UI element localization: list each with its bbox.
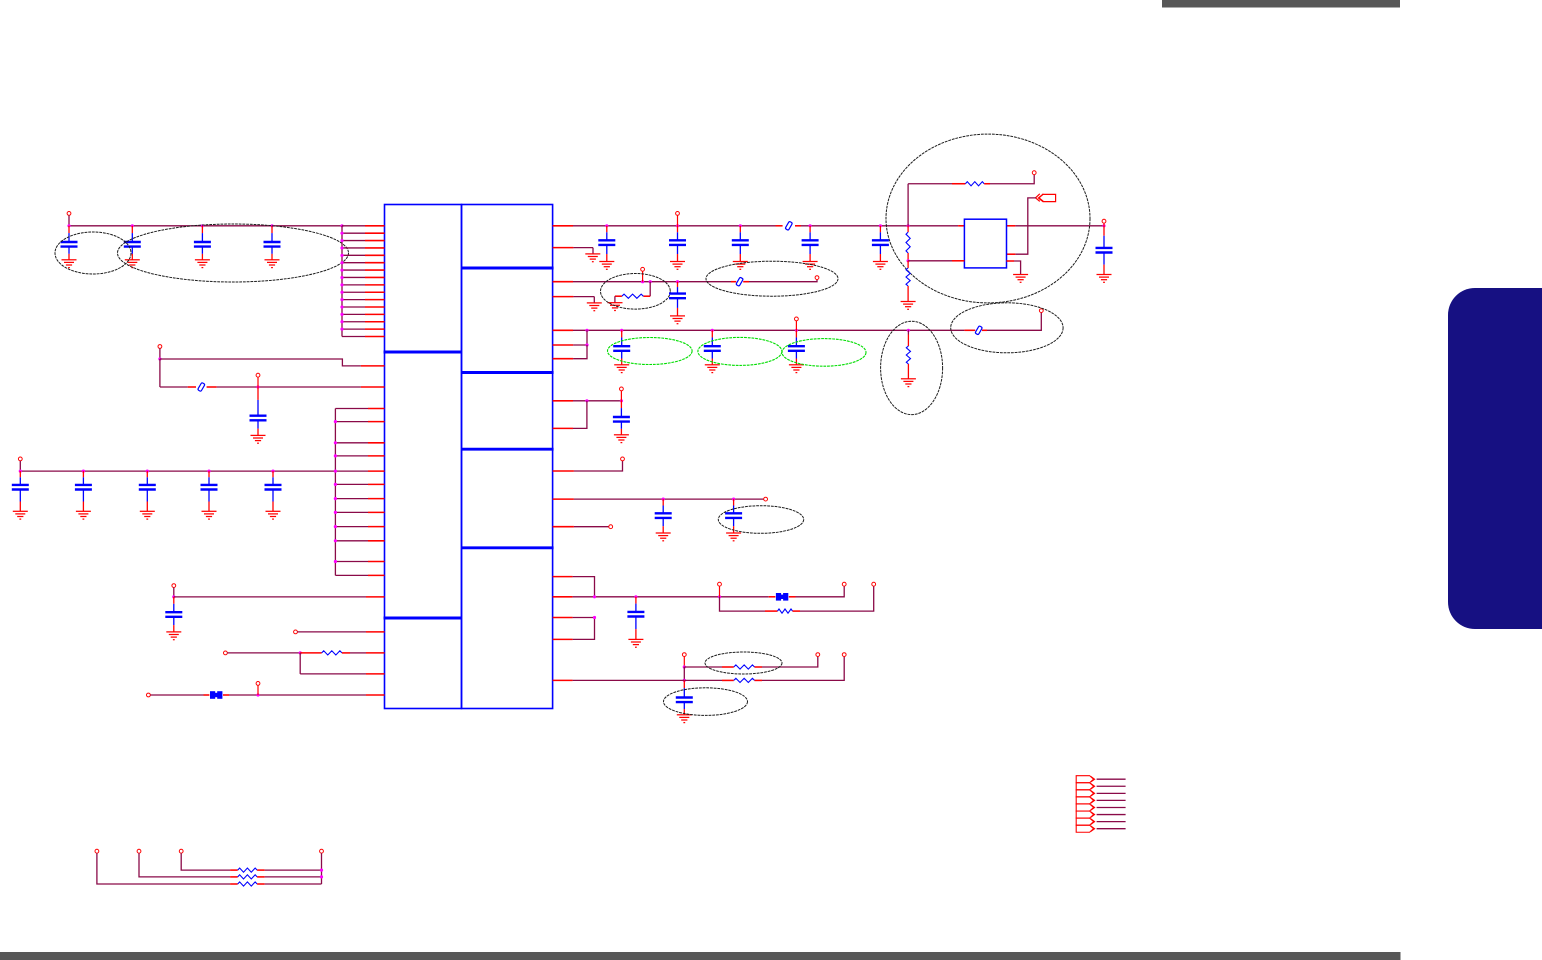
- fuse F2: [785, 221, 792, 230]
- pin P25: [816, 653, 820, 657]
- capacitor C2: [131, 226, 133, 233]
- wire bundle1 row 11: [342, 299, 365, 301]
- ground C14: [733, 262, 748, 270]
- power pin P5: [172, 584, 176, 588]
- wire net2 right: [207, 386, 217, 388]
- power pin P10: [676, 212, 680, 216]
- U1 left block divider 1: [384, 351, 462, 354]
- power pin P15: [620, 387, 624, 391]
- wire bundle1 row 13: [342, 313, 365, 315]
- net label arrow: [1036, 194, 1056, 202]
- resistor R4: [965, 182, 984, 186]
- wire net11 right: [755, 679, 763, 681]
- ground C26: [677, 715, 692, 723]
- wire row5: [553, 470, 574, 472]
- wire N4 down: [299, 653, 301, 674]
- U1 right block divider 2: [462, 371, 554, 374]
- pin P23: [872, 582, 876, 586]
- node rowA-B junctions: [320, 869, 323, 872]
- wire net11: [553, 679, 573, 681]
- power pin P18: [621, 457, 625, 461]
- wire N1 down: [159, 359, 161, 387]
- wire U2 gnd pin: [1007, 260, 1015, 262]
- wire net7 right: [223, 694, 229, 696]
- wire bundle2 row 2: [335, 421, 368, 423]
- resistor R9: [734, 678, 755, 682]
- wire bus3 segment b: [908, 329, 964, 331]
- U1 right block divider 1: [462, 267, 554, 270]
- fuse F1: [198, 382, 205, 391]
- wire bundle2 row 12: [335, 574, 368, 576]
- capacitor C19: [711, 330, 713, 337]
- wire J4: [1097, 799, 1126, 801]
- annotation ellipse A8: [705, 652, 782, 674]
- annotation ellipse A9: [664, 688, 748, 716]
- power pin P14: [795, 317, 799, 321]
- wire net9 right: [793, 610, 801, 612]
- wire bundle2 row 4: [335, 455, 368, 457]
- off-page connector J2: [1076, 783, 1094, 790]
- wire bundle2 row 6: [335, 483, 368, 485]
- node N1: [158, 357, 161, 360]
- pin P27: [95, 849, 99, 853]
- navy side panel: [1448, 288, 1542, 629]
- capacitor C6: [19, 471, 21, 477]
- resistor R11: [238, 875, 257, 879]
- wire bus3 bracket: [573, 330, 587, 345]
- wire gnd stub pin 2: [553, 247, 574, 249]
- annotation ellipse A2: [118, 224, 349, 282]
- pin P7 open: [224, 651, 228, 655]
- ground C6: [13, 511, 28, 519]
- wire J2: [1097, 785, 1126, 787]
- ground C8: [140, 511, 155, 519]
- capacitor C14: [739, 226, 741, 233]
- fuse F3: [736, 277, 743, 286]
- ground C3: [195, 260, 210, 268]
- node rail1 junctions: [67, 224, 70, 227]
- resistor R8: [734, 665, 755, 669]
- wire J6: [1097, 814, 1126, 816]
- wire gnd stub pin 4: [553, 296, 574, 298]
- power pin P9: [256, 682, 260, 686]
- ground C7: [76, 511, 91, 519]
- wire row4 bracket: [573, 401, 587, 429]
- ground C23: [656, 533, 671, 541]
- ground G2: [587, 303, 602, 311]
- power pin P24: [682, 653, 686, 657]
- capacitor C22: [1103, 226, 1105, 236]
- wire P30 stub: [321, 853, 323, 884]
- wire bundle1 row 5: [342, 254, 365, 256]
- power pin P3: [256, 373, 260, 377]
- wire net3: [174, 596, 366, 598]
- wire net6: [300, 673, 366, 675]
- wire bus1 segment c: [1007, 225, 1016, 227]
- ground C20: [789, 365, 804, 373]
- capacitor C25: [635, 597, 637, 604]
- wire bundle2 row 1: [335, 408, 368, 410]
- wire net7 left: [150, 694, 203, 696]
- pin P28: [137, 849, 141, 853]
- wire VCC rail 1: [69, 225, 342, 227]
- ground R2: [608, 303, 623, 311]
- pin P8 open: [147, 693, 151, 697]
- ferrite bead FB1: [210, 691, 222, 699]
- wire bundle1 row 6: [342, 262, 365, 264]
- capacitor C23: [662, 499, 664, 505]
- capacitor C8: [146, 471, 148, 477]
- wire bundle2 row 10: [335, 540, 368, 542]
- ground U2: [1013, 275, 1028, 283]
- wire bundle2 row 8: [335, 511, 368, 513]
- wire rowA right: [257, 869, 265, 871]
- ground R3: [901, 379, 916, 387]
- off-page connector J6: [1076, 811, 1094, 818]
- wire bundle1 row 9: [342, 284, 365, 286]
- capacitor C17: [677, 282, 679, 287]
- wire rowC right: [257, 883, 265, 885]
- off-page connector J8: [1076, 825, 1094, 832]
- wire bundle1 row 8: [342, 276, 365, 278]
- ground R6: [901, 302, 916, 310]
- resistor R5: [907, 226, 909, 232]
- fuse F4: [975, 326, 982, 335]
- IC U1 left block: [385, 205, 462, 709]
- wire bundle2 row 11: [335, 561, 368, 563]
- wire bus1 segment b: [795, 225, 801, 227]
- capacitor C7: [82, 471, 84, 477]
- wire bundle2 row 7: [335, 498, 368, 500]
- wire bundle1 row 1: [342, 225, 365, 227]
- wire bundle1 row 3: [342, 240, 365, 242]
- wire net row4: [553, 400, 573, 402]
- capacitor C18: [621, 330, 623, 337]
- ground C22: [1097, 275, 1112, 283]
- power pin P22: [718, 582, 722, 586]
- wire bundle1 row 16: [342, 336, 365, 338]
- node N6: [907, 259, 910, 262]
- node row4 junctions: [585, 399, 588, 402]
- resistor R10: [238, 868, 257, 872]
- power pin P2: [158, 345, 162, 349]
- wire bundle2 row 3: [335, 442, 368, 444]
- off-page connector J5: [1076, 804, 1094, 811]
- wire R4 net right: [984, 183, 990, 185]
- capacitor C1: [68, 226, 70, 233]
- bottom taskbar bar: [0, 952, 1401, 960]
- wire row8 bracket: [553, 576, 573, 578]
- capacitor C5: [257, 387, 259, 400]
- IC U2 regulator: [964, 219, 1006, 268]
- wire step net: [160, 359, 361, 366]
- pin P6 open: [294, 630, 298, 634]
- annotation ellipse A5: [881, 321, 943, 414]
- U1 right block divider 4: [462, 546, 554, 549]
- wire rowA: [181, 853, 230, 870]
- wire J7: [1097, 821, 1126, 823]
- annotation ellipse A3: [601, 274, 671, 310]
- ferrite bead FB2: [776, 593, 788, 601]
- wire rowB: [139, 853, 230, 877]
- power pin P12: [641, 267, 645, 271]
- node row6 junctions: [662, 498, 665, 501]
- wire bus4: [553, 596, 573, 598]
- wire bus3 segment a: [553, 329, 573, 331]
- node bus4 junctions: [593, 595, 596, 598]
- wire bus2 segment a: [553, 281, 573, 283]
- wire R4 net top: [907, 184, 909, 226]
- capacitor C13: [677, 226, 679, 233]
- capacitor C12: [606, 226, 608, 233]
- node bus3 junctions: [585, 329, 588, 332]
- ground C11: [166, 632, 181, 640]
- wire row6: [553, 498, 574, 500]
- node N7: [683, 665, 686, 668]
- wire bundle2 row 9: [335, 526, 368, 528]
- annotation circle A6: [886, 134, 1090, 303]
- wire bus4 right: [789, 596, 796, 598]
- wire R2 to gnd: [615, 295, 622, 297]
- power pin P1: [67, 212, 71, 216]
- test ellipse E1 green: [608, 338, 693, 365]
- capacitor C3: [201, 226, 203, 233]
- off-page connector J1: [1076, 776, 1094, 783]
- U1 right block divider 3: [462, 448, 554, 451]
- annotation ellipse A4: [706, 261, 838, 296]
- pin P19: [764, 497, 768, 501]
- node N2: [256, 385, 259, 388]
- node N3: [172, 595, 175, 598]
- wire bus2 segment b: [743, 281, 749, 283]
- wire bundle1 row 7: [342, 269, 365, 271]
- node N8: [683, 679, 686, 682]
- resistor R6: [907, 261, 909, 268]
- ground C1: [62, 260, 77, 268]
- U1 left block divider 2: [384, 617, 462, 620]
- test ellipse E3 green: [782, 339, 866, 367]
- capacitor C26: [683, 680, 685, 688]
- capacitor C20: [795, 330, 797, 337]
- wire rowC: [97, 853, 230, 884]
- wire N7 down: [683, 667, 685, 680]
- capacitor C24: [733, 499, 735, 505]
- wire bundle1 vertical bus: [341, 226, 343, 337]
- wire VCC rail 2: [20, 470, 335, 472]
- ground C21: [614, 435, 629, 443]
- wire net5 right: [342, 652, 350, 654]
- pin P13: [1039, 309, 1043, 313]
- wire net10: [684, 666, 722, 668]
- wire rowB right: [257, 876, 265, 878]
- off-page connector J7: [1076, 818, 1094, 825]
- pin P30: [320, 849, 324, 853]
- ground C17: [670, 316, 685, 324]
- power pin P17: [1102, 219, 1106, 223]
- wire J3: [1097, 792, 1126, 794]
- wire bus1 segment a: [553, 225, 573, 227]
- off-page connector J4: [1076, 797, 1094, 804]
- ground C2: [125, 260, 140, 268]
- capacitor C9: [208, 471, 210, 477]
- pin P11: [815, 276, 819, 280]
- ground C12: [599, 262, 614, 270]
- ground C4: [265, 260, 280, 268]
- wire net5 left: [227, 652, 300, 654]
- wire bus3 segment c: [982, 329, 987, 331]
- capacitor C10: [272, 471, 274, 477]
- ground C18: [614, 365, 629, 373]
- ground C19: [705, 365, 720, 373]
- pin P16: [1032, 171, 1036, 175]
- wire net4: [298, 631, 367, 633]
- node N5: [256, 693, 259, 696]
- capacitor C15: [809, 226, 811, 233]
- resistor R7: [778, 609, 793, 613]
- wire net10 right: [755, 666, 763, 668]
- wire J5: [1097, 806, 1126, 808]
- pin P26: [842, 653, 846, 657]
- wire bundle1 row 12: [342, 306, 365, 308]
- wire N6 to U2: [908, 260, 952, 262]
- wire bundle2 row 5: [335, 470, 368, 472]
- capacitor C4: [271, 226, 273, 233]
- ground C25: [628, 639, 643, 647]
- wire J8: [1097, 828, 1126, 830]
- wire bundle1 row 15: [342, 328, 365, 330]
- wire J1: [1097, 778, 1126, 780]
- capacitor C16: [879, 226, 881, 233]
- wire net9: [720, 597, 766, 611]
- ground C9: [202, 511, 217, 519]
- wire bundle1 row 14: [342, 321, 365, 323]
- wire row7: [553, 526, 574, 528]
- top toolbar bar: [1162, 0, 1400, 8]
- pin P20 open: [609, 525, 613, 529]
- wire net2 left: [160, 386, 188, 388]
- node N4: [299, 651, 302, 654]
- capacitor C21: [620, 401, 622, 408]
- node rail2 junctions: [19, 470, 22, 473]
- ground C16: [873, 262, 888, 270]
- resistor R3: [907, 330, 909, 334]
- capacitor C11: [173, 597, 175, 604]
- wire R2 net: [649, 282, 651, 297]
- off-page connector J3: [1076, 790, 1094, 797]
- resistor R1: [322, 651, 342, 655]
- ground C10: [266, 511, 281, 519]
- node bus1 junctions: [605, 224, 608, 227]
- ground C24: [726, 533, 741, 541]
- wire bundle1 row 2: [342, 232, 365, 234]
- IC U1 right block: [462, 205, 553, 709]
- annotation ellipse A10: [951, 303, 1063, 353]
- ground C13: [670, 262, 685, 270]
- ground C5: [251, 435, 266, 443]
- resistor R12: [238, 882, 257, 886]
- test ellipse E2 green: [698, 337, 782, 365]
- wire row bracket 2: [553, 617, 573, 619]
- pin P29: [179, 849, 183, 853]
- ground C15: [803, 262, 818, 270]
- node bus2 junctions: [641, 280, 644, 283]
- wire label net: [1015, 198, 1036, 254]
- wire bundle2 vertical bus: [334, 409, 336, 576]
- resistor R2: [622, 294, 643, 298]
- ground G1: [585, 254, 600, 262]
- annotation ellipse A7: [718, 506, 803, 534]
- wire bundle1 row 4: [342, 247, 365, 249]
- pin P21: [842, 582, 846, 586]
- power pin P4: [18, 457, 22, 461]
- wire bundle1 row 10: [342, 291, 365, 293]
- annotation ellipse A1: [55, 232, 131, 274]
